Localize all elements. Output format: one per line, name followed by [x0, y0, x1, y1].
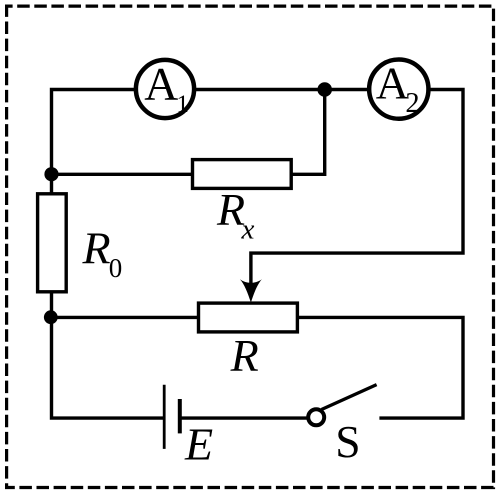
svg-text:S: S: [335, 416, 360, 467]
node junction dot top: [317, 82, 332, 97]
wire A1 left lead and left rail upper: [52, 90, 136, 197]
wire battery to switch: [182, 416, 308, 419]
wire left node to Rx left terminal: [52, 173, 193, 176]
label R0: [82, 223, 123, 283]
node junction dot upper left: [44, 167, 58, 181]
resistor R0: [38, 194, 67, 292]
resistor Rx: [193, 160, 292, 189]
battery E: [164, 385, 180, 449]
svg-text:2: 2: [405, 88, 419, 119]
node junction dot lower left: [44, 310, 58, 324]
wire left rail lower and bottom left to battery: [52, 290, 164, 418]
wire lower node to R left terminal: [52, 316, 199, 319]
wire R right terminal, right rail lower and bottom right: [297, 317, 464, 418]
label Rx: [216, 184, 255, 245]
ammeter A2: [369, 58, 428, 119]
wire node down to Rx right terminal: [292, 90, 325, 175]
ammeter A1: [136, 58, 194, 118]
wiper arrowhead: [240, 279, 262, 302]
svg-text:0: 0: [109, 253, 123, 283]
svg-text:R: R: [82, 223, 111, 274]
svg-text:R: R: [230, 330, 259, 381]
svg-text:A: A: [144, 58, 178, 110]
svg-text:1: 1: [176, 91, 189, 118]
svg-text:E: E: [184, 419, 213, 470]
wire A2 right lead, right rail upper and wiper feed: [251, 90, 463, 295]
wire A1 right to A2 left through node: [196, 88, 369, 91]
svg-text:x: x: [241, 214, 255, 246]
rheostat R: [199, 303, 298, 332]
switch S: [308, 385, 376, 426]
svg-text:A: A: [376, 58, 409, 109]
